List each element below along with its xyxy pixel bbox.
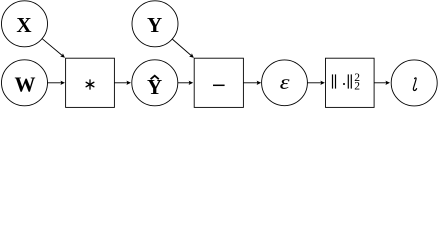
- svg-text:ε: ε: [280, 71, 291, 94]
- node W: [2, 60, 48, 106]
- wire Y-hat to minus: [178, 81, 193, 85]
- node X: [2, 1, 48, 47]
- wire epsilon to norm: [307, 81, 325, 85]
- box minus: [194, 58, 243, 107]
- svg-text:W: W: [15, 72, 36, 96]
- svg-text:2: 2: [354, 81, 360, 93]
- wire X to multiply: [42, 39, 66, 60]
- node Y-hat: [132, 60, 178, 106]
- wire Y to minus: [172, 39, 195, 59]
- box norm: [326, 58, 375, 107]
- wire multiply to Y-hat: [114, 81, 131, 85]
- node epsilon: [262, 60, 308, 106]
- node loss l: [391, 60, 437, 106]
- box multiply: [66, 58, 115, 107]
- svg-text:Y: Y: [147, 13, 162, 37]
- svg-text:X: X: [16, 13, 31, 37]
- svg-text:Y: Y: [147, 75, 162, 99]
- node Y: [132, 1, 178, 47]
- wire norm to loss: [374, 81, 390, 85]
- wire minus to epsilon: [243, 81, 261, 85]
- wire W to multiply: [48, 81, 66, 85]
